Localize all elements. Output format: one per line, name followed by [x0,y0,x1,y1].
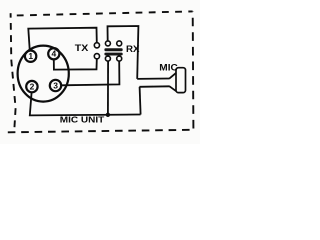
pin 3 [50,80,61,91]
RX plug shorting bar lower [104,53,122,56]
pin 4 [48,48,59,59]
wire RX lower-left terminal to ground rail [107,61,109,115]
wire RX upper-left terminal to MIC top [108,26,139,79]
RX plug terminal lower-right [117,56,122,61]
TX switch bottom terminal [94,54,99,59]
svg-text:2: 2 [30,81,35,91]
microphone element MIC stem [137,79,169,87]
RX plug shorting bar upper [104,48,122,51]
svg-text:3: 3 [53,80,58,90]
dashed enclosure border bottom edge [8,130,194,133]
svg-text:4: 4 [52,49,57,59]
wire pin4 to TX bottom terminal [54,59,97,70]
dashed enclosure border top edge [11,11,193,15]
pin number labels [28,49,58,92]
RX plug terminal lower-left [105,56,110,61]
wire pin1 to TX top terminal [28,28,97,52]
dashed enclosure border left edge [11,13,16,131]
svg-text:1: 1 [28,51,33,61]
pin 2 [26,81,37,92]
dashed enclosure border right edge [192,11,195,129]
svg-text:MIC UNIT: MIC UNIT [60,115,105,125]
svg-text:RX: RX [126,44,140,54]
microphone element flare [169,73,176,91]
wire MIC bottom to ground rail [140,87,141,115]
wire pin3 to RX lower-right terminal [61,61,119,85]
pin 1 [25,51,36,62]
RX plug terminal upper-right [117,41,122,46]
connector J1 body circle [18,46,69,102]
svg-text:MIC: MIC [159,62,178,72]
junction dot on ground rail [106,113,110,117]
bottom ground rail wire pin2 to MIC [30,92,141,115]
svg-text:TX: TX [75,43,89,53]
RX plug terminal upper-left [105,41,110,46]
microphone element capsule [176,68,186,93]
TX switch top terminal [94,43,99,48]
